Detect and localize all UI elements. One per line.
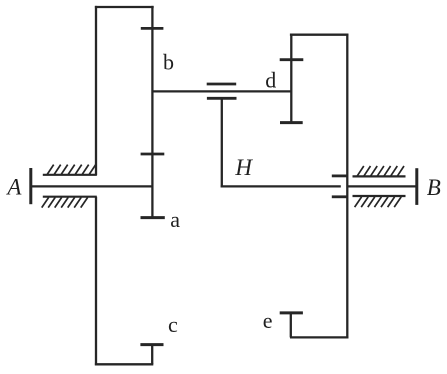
gear c stem [151,345,153,365]
gear mesh coupling lower bar [207,97,237,100]
shaft B end cap [415,168,418,205]
gear b bottom tooth tick [141,153,165,156]
svg-text:a: a [170,207,180,232]
wire: left frame top horizontal [95,6,154,8]
carrier H horizontal arm [221,185,341,187]
gear e stem [290,313,292,338]
wire: right bracket top horizontal [290,34,349,36]
bearing A upper hatching [47,165,95,175]
gear mesh coupling upper bar [207,83,237,86]
gear shaft b-a vertical [151,6,153,219]
wire: left frame bottom horizontal [95,363,153,365]
wire: left frame upper vertical [95,6,97,175]
gear shaft d vertical [290,34,292,124]
gear b top tooth tick [141,27,164,30]
svg-text:c: c [168,312,178,337]
bearing A lower hatching [42,197,88,207]
wire: right bracket bottom horizontal [290,336,348,338]
svg-text:e: e [263,308,273,333]
gear d end bar [280,121,303,124]
bearing B lower line [353,195,406,197]
wire: right bracket vertical [346,34,348,339]
gear a end bar [141,216,165,219]
bearing A upper line [43,174,97,176]
sleeve upper wall at B [332,174,347,177]
svg-text:A: A [5,174,22,199]
bearing B lower hatching [355,197,402,207]
svg-text:H: H [234,155,253,180]
shaft b-d [152,90,291,92]
shaft A [30,185,153,187]
shaft B [347,185,416,187]
svg-text:b: b [163,50,174,75]
shaft A end cap [29,168,32,204]
carrier H vertical arm [221,98,223,187]
gear c end bar [140,343,163,346]
gear e end bar [280,311,303,314]
wire: left frame lower vertical [95,197,97,366]
svg-text:B: B [427,175,441,200]
sleeve lower wall at B [332,195,347,198]
bearing B upper line [353,175,406,177]
bearing A lower line [43,196,97,198]
bearing B upper hatching [357,166,404,176]
svg-text:d: d [265,68,276,93]
gear d top tooth tick [280,58,304,61]
